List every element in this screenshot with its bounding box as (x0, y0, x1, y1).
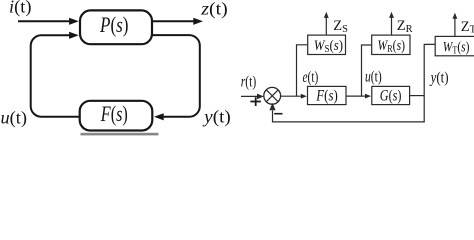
svg-text:G(s): G(s) (380, 87, 402, 104)
svg-text:F(s): F(s) (100, 101, 128, 126)
svg-text:y(t): y(t) (202, 107, 231, 128)
svg-text:e(t): e(t) (303, 69, 319, 86)
svg-text:P(s): P(s) (99, 12, 128, 37)
svg-text:y(t): y(t) (429, 69, 449, 86)
svg-text:u(t): u(t) (365, 68, 382, 85)
svg-text:F(s): F(s) (315, 87, 337, 104)
svg-text:i(t): i(t) (9, 0, 32, 18)
svg-text:r(t): r(t) (241, 74, 257, 91)
svg-text:z(t): z(t) (200, 0, 228, 19)
svg-text:u(t): u(t) (1, 108, 27, 129)
